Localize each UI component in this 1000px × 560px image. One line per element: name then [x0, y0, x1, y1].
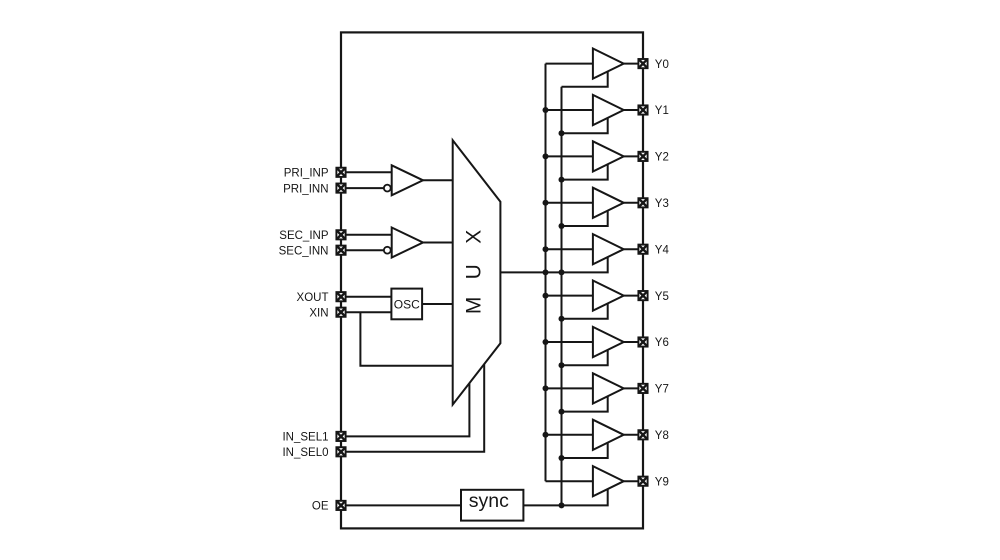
wire IN_SEL1 [341, 383, 469, 436]
svg-text:Y2: Y2 [655, 152, 669, 164]
svg-text:Y3: Y3 [655, 198, 669, 210]
oscillator OSC [391, 289, 422, 320]
svg-text:Y7: Y7 [655, 384, 669, 396]
svg-text:Y0: Y0 [655, 59, 669, 71]
wire IN_SEL0 [341, 364, 484, 451]
wire clock bus to Y5 buffer input [546, 295, 593, 297]
pin SEC_INP [336, 230, 345, 239]
svg-text:SEC_INN: SEC_INN [279, 245, 329, 257]
svg-text:OE: OE [312, 501, 329, 513]
svg-text:Y1: Y1 [655, 105, 669, 117]
pin Y2 [638, 152, 647, 161]
pin Y9 [638, 477, 647, 486]
buffer PRI differential input [392, 165, 423, 195]
svg-text:sync: sync [469, 490, 509, 512]
wire Y6 buffer to pin [624, 341, 643, 343]
pin Y1 [638, 105, 647, 114]
wire clock bus to Y8 buffer input [546, 434, 593, 436]
wire clock bus to Y4 buffer input [546, 248, 593, 250]
pin SEC_INN [336, 246, 345, 255]
pin IN_SEL1 [336, 432, 345, 441]
buffer Y4 output [593, 234, 624, 264]
buffer Y1 output [593, 95, 624, 125]
svg-text:Y4: Y4 [655, 244, 670, 256]
sync block [461, 490, 523, 521]
svg-text:Y6: Y6 [655, 337, 669, 349]
svg-text:X: X [462, 230, 485, 244]
pin Y4 [638, 245, 647, 254]
buffer Y9 output [593, 466, 624, 496]
junction clock bus / Y7 input [543, 385, 549, 391]
pin Y6 [638, 337, 647, 346]
buffer Y8 output [593, 420, 624, 450]
junction enable bus / Y2 enable [559, 177, 565, 183]
wire enable bus to Y1 buffer enable [562, 118, 608, 133]
wire enable bus to Y5 buffer enable [562, 304, 608, 319]
pin IN_SEL0 [336, 447, 345, 456]
pin Y8 [638, 430, 647, 439]
svg-text:M: M [462, 297, 485, 315]
wire PRI_INP [341, 171, 392, 173]
junction clock bus / Y5 input [543, 293, 549, 299]
buffer Y3 output [593, 188, 624, 218]
wire enable bus to Y3 buffer enable [562, 211, 608, 226]
svg-text:Y8: Y8 [655, 430, 669, 442]
wire clock bus to Y7 buffer input [546, 387, 593, 389]
pin OE [336, 501, 345, 510]
pin Y3 [638, 198, 647, 207]
buffer Y7 output [593, 373, 624, 403]
wire enable bus to Y8 buffer enable [562, 443, 608, 458]
wire clock bus to Y1 buffer input [546, 109, 593, 111]
wire XIN [341, 311, 391, 313]
wire Y5 buffer to pin [624, 295, 643, 297]
wire Y0 buffer to pin [624, 63, 643, 65]
junction enable bus / Y6 enable [559, 362, 565, 368]
pin Y0 [638, 59, 647, 68]
wire clock distribution bus [545, 64, 547, 482]
wire Y3 buffer to pin [624, 202, 643, 204]
wire Y2 buffer to pin [624, 155, 643, 157]
junction clock bus / Y6 input [543, 339, 549, 345]
svg-text:XIN: XIN [309, 307, 328, 319]
wire enable bus to Y6 buffer enable [562, 350, 608, 365]
junction enable bus / Y7 enable [559, 409, 565, 415]
inversion bubble SEC_INN [384, 247, 391, 254]
wire enable distribution bus [561, 87, 563, 506]
wire PRI buffer output to MUX [423, 179, 453, 181]
pin XIN [336, 308, 345, 317]
svg-text:SEC_INP: SEC_INP [279, 230, 329, 242]
junction sync output / enable bus [559, 502, 565, 508]
wire clock bus to Y0 buffer input [546, 63, 593, 65]
wire Y1 buffer to pin [624, 109, 643, 111]
wire Y9 buffer to pin [624, 480, 643, 482]
wire enable bus to Y7 buffer enable [562, 396, 608, 411]
wire Y7 buffer to pin [624, 387, 643, 389]
junction clock bus / Y8 input [543, 432, 549, 438]
buffer SEC differential input [392, 228, 423, 258]
junction enable bus / Y5 enable [559, 316, 565, 322]
junction clock bus / Y1 input [543, 107, 549, 113]
junction enable bus / Y1 enable [559, 130, 565, 136]
wire OSC output to MUX [422, 303, 453, 305]
junction enable bus / Y8 enable [559, 455, 565, 461]
svg-text:XOUT: XOUT [297, 292, 329, 304]
svg-text:IN_SEL0: IN_SEL0 [282, 447, 328, 459]
wire clock bus to Y9 buffer input [546, 480, 593, 482]
junction enable bus / Y3 enable [559, 223, 565, 229]
inversion bubble PRI_INN [384, 185, 391, 192]
junction MUX output / enable bus [559, 269, 565, 275]
svg-text:Y5: Y5 [655, 291, 669, 303]
junction clock bus / Y2 input [543, 153, 549, 159]
buffer Y2 output [593, 141, 624, 171]
pin XOUT [336, 292, 345, 301]
wire SEC_INN [341, 249, 384, 251]
wire enable bus to Y0 buffer enable [562, 72, 608, 87]
wire Y8 buffer to pin [624, 434, 643, 436]
svg-text:U: U [462, 264, 485, 279]
junction MUX output / clock bus [543, 269, 549, 275]
wire XOUT [341, 296, 391, 298]
wire clock bus to Y2 buffer input [546, 155, 593, 157]
svg-text:Y9: Y9 [655, 476, 669, 488]
svg-text:PRI_INN: PRI_INN [283, 183, 328, 195]
wire clock bus to Y6 buffer input [546, 341, 593, 343]
buffer Y5 output [593, 281, 624, 311]
buffer Y0 output [593, 49, 624, 79]
wire PRI_INN [341, 187, 384, 189]
wire SEC_INP [341, 234, 392, 236]
buffer Y6 output [593, 327, 624, 357]
svg-text:PRI_INP: PRI_INP [284, 168, 329, 180]
wire SEC buffer output to MUX [423, 242, 453, 244]
wire OE [341, 504, 461, 506]
wire MUX output to clock bus and Y4 enable [500, 257, 607, 272]
mux MUX [453, 140, 501, 404]
pin PRI_INP [336, 168, 345, 177]
pin Y7 [638, 384, 647, 393]
wire sync output to enable bus and Y9 enable [523, 489, 607, 505]
wire enable bus to Y2 buffer enable [562, 164, 608, 179]
chip outline U1 [341, 32, 643, 528]
wire XIN branch to MUX input [360, 312, 452, 366]
pin PRI_INN [336, 184, 345, 193]
svg-text:IN_SEL1: IN_SEL1 [282, 432, 328, 444]
svg-text:OSC: OSC [394, 297, 420, 311]
junction clock bus / Y3 input [543, 200, 549, 206]
pin Y5 [638, 291, 647, 300]
wire Y4 buffer to pin [624, 248, 643, 250]
wire clock bus to Y3 buffer input [546, 202, 593, 204]
junction clock bus / Y4 input [543, 246, 549, 252]
